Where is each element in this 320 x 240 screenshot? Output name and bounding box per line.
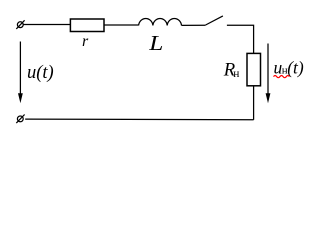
svg-text:Rн: Rн [223,60,240,81]
arrow u(t) [18,42,23,104]
switch blade [206,16,223,25]
svg-text:r: r [82,33,89,50]
wire Rн to bottom [253,86,255,120]
svg-text:uн(t): uн(t) [274,57,304,77]
wire switch to top-right corner, down to Rн [227,25,254,53]
wire resistor to inductor [104,24,139,26]
terminal top-left [16,20,24,29]
red spellcheck squiggle [274,76,290,78]
arrow uн(t) [266,44,271,104]
terminal bottom-left [16,115,24,124]
bottom wire [25,118,253,121]
svg-text:u(t): u(t) [27,63,54,83]
wire top-left to resistor [23,24,70,26]
wire inductor to switch [182,24,206,26]
inductor L [139,19,182,26]
resistor Rн [247,53,261,85]
resistor r [70,19,104,32]
svg-text:L: L [148,32,163,56]
